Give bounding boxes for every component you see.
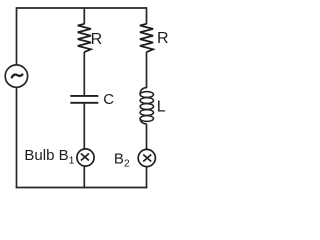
bulb B2 xyxy=(138,149,155,166)
svg-text:C: C xyxy=(103,91,114,108)
wire middle branch top xyxy=(83,8,85,24)
svg-text:R: R xyxy=(157,30,169,47)
wire bottom border xyxy=(16,187,148,189)
wire middle branch bulb to bottom xyxy=(83,166,85,188)
ac source xyxy=(5,65,27,87)
wire right branch top xyxy=(146,7,148,24)
wire left border lower xyxy=(16,88,18,189)
wire left border upper xyxy=(16,7,18,64)
wire right branch L to bulb xyxy=(146,124,148,150)
wire right branch bulb to bottom xyxy=(146,166,148,188)
resistor R right xyxy=(140,24,153,52)
svg-text:Bulb B1: Bulb B1 xyxy=(24,147,74,166)
svg-text:R: R xyxy=(91,31,103,48)
capacitor C xyxy=(70,96,98,103)
wire middle branch C to bulb xyxy=(83,104,85,150)
svg-text:L: L xyxy=(157,99,166,116)
wire middle branch R to C xyxy=(83,52,85,95)
bulb B1 xyxy=(77,149,94,166)
resistor R middle xyxy=(78,24,91,52)
svg-text:B2: B2 xyxy=(114,150,130,169)
wire top border xyxy=(17,7,147,9)
wire right branch R to L xyxy=(146,52,148,88)
inductor L xyxy=(140,88,153,124)
